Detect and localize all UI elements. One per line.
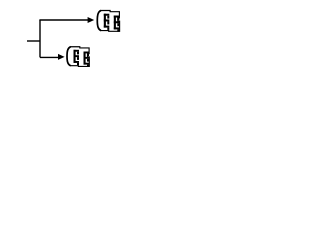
arrowhead top [88,17,95,23]
connector symbol top [97,10,119,31]
arrowhead bottom [58,54,65,60]
wire input stub [27,40,40,42]
wire top branch [39,19,88,21]
wire bottom branch [40,56,59,58]
wire vertical branch [39,20,41,57]
connector symbol bottom [67,47,89,67]
